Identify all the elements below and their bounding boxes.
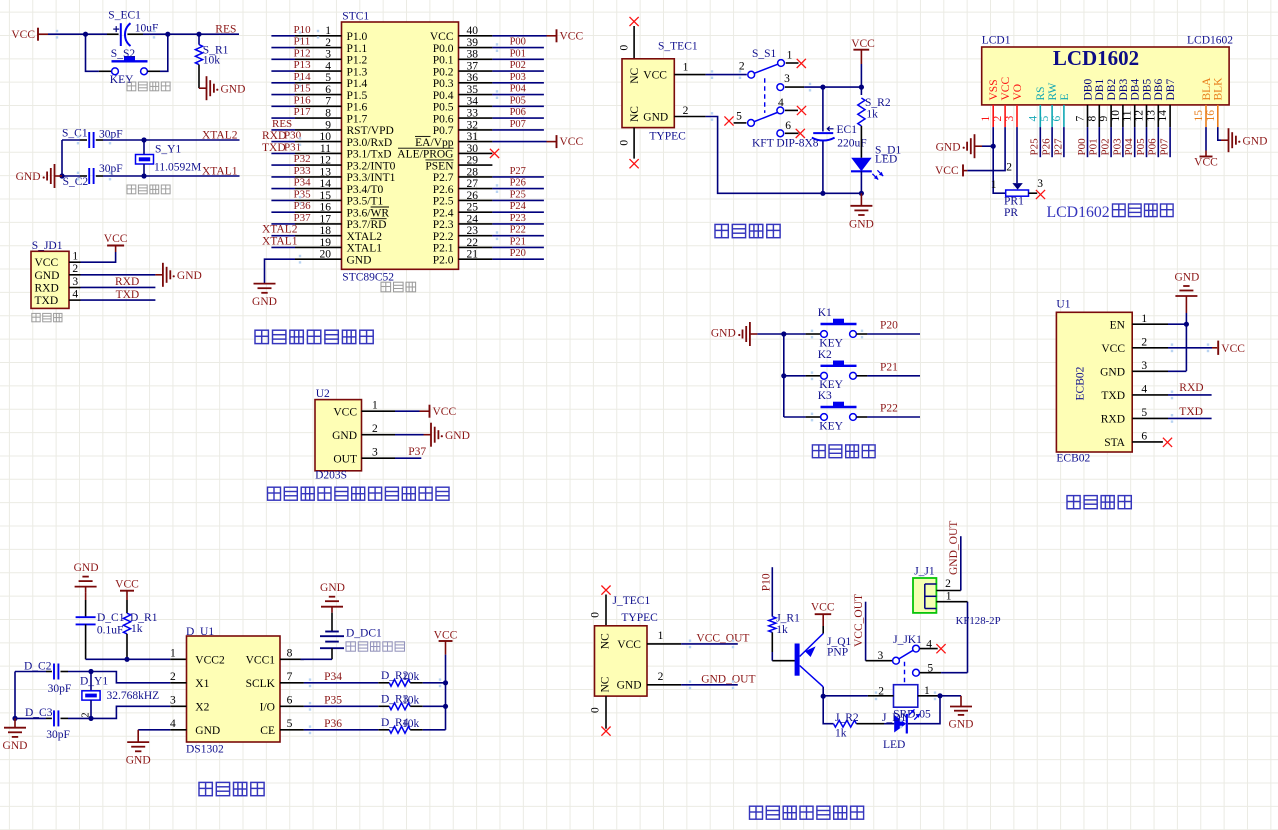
svg-text:P32: P32 (294, 153, 311, 165)
svg-text:14: 14 (1157, 110, 1169, 122)
svg-text:11: 11 (1122, 110, 1134, 121)
svg-text:VCC: VCC (851, 38, 875, 50)
svg-text:DS1302: DS1302 (186, 744, 224, 756)
svg-text:VCC: VCC (643, 70, 667, 82)
svg-text:S_EC1: S_EC1 (108, 10, 141, 22)
svg-text:VCC: VCC (35, 257, 59, 269)
svg-text:1k: 1k (835, 728, 847, 740)
svg-text:GND_OUT: GND_OUT (948, 521, 960, 575)
svg-text:EC1: EC1 (837, 124, 858, 136)
svg-text:15: 15 (1193, 110, 1205, 122)
svg-text:P06: P06 (1147, 138, 1159, 156)
svg-text:P1.5: P1.5 (347, 90, 368, 102)
svg-text:P37: P37 (408, 446, 426, 458)
svg-text:KEY: KEY (819, 337, 843, 349)
svg-text:I/O: I/O (260, 702, 275, 714)
svg-text:P01: P01 (510, 48, 526, 59)
svg-text:1: 1 (658, 630, 664, 642)
svg-text:P21: P21 (510, 236, 526, 247)
svg-text:K1: K1 (818, 307, 832, 319)
svg-text:BLA: BLA (1201, 77, 1213, 101)
svg-text:P0.6: P0.6 (433, 113, 454, 125)
svg-text:4: 4 (1141, 384, 1147, 396)
svg-text:NC: NC (629, 106, 641, 122)
svg-text:GND: GND (711, 328, 736, 340)
svg-text:1: 1 (787, 50, 793, 62)
svg-text:P10: P10 (760, 573, 772, 591)
svg-text:GND: GND (347, 254, 372, 266)
svg-text:DB7: DB7 (1165, 79, 1177, 101)
svg-text:0: 0 (590, 707, 602, 713)
svg-text:P34: P34 (294, 177, 312, 189)
svg-text:J_D1: J_D1 (882, 712, 907, 724)
svg-text:STC1: STC1 (342, 11, 369, 23)
svg-text:1: 1 (980, 116, 992, 122)
svg-text:10k: 10k (203, 55, 221, 67)
svg-text:2: 2 (658, 671, 664, 683)
svg-text:VCC: VCC (1101, 343, 1125, 355)
svg-text:NC: NC (629, 67, 641, 83)
svg-text:P1.6: P1.6 (347, 102, 368, 114)
svg-text:2: 2 (945, 578, 951, 590)
svg-text:16: 16 (1205, 110, 1217, 122)
svg-text:VCC1: VCC1 (246, 655, 276, 667)
svg-text:SCLK: SCLK (246, 678, 276, 690)
svg-text:U2: U2 (316, 388, 330, 400)
svg-text:VCC: VCC (11, 29, 35, 41)
svg-text:S_C2: S_C2 (63, 176, 89, 188)
svg-text:DB6: DB6 (1153, 79, 1165, 101)
svg-text:X1: X1 (195, 678, 209, 690)
svg-text:8: 8 (287, 648, 293, 660)
svg-text:D_C2: D_C2 (24, 660, 52, 672)
svg-text:6: 6 (1141, 431, 1147, 443)
svg-text:2: 2 (1141, 336, 1147, 348)
svg-text:XTAL1: XTAL1 (347, 243, 383, 255)
svg-text:P15: P15 (294, 83, 312, 95)
svg-text:RXD: RXD (262, 130, 286, 142)
svg-text:VCC: VCC (1221, 343, 1245, 355)
svg-text:D_C1: D_C1 (97, 612, 125, 624)
svg-text:P0.5: P0.5 (433, 102, 454, 114)
svg-text:10k: 10k (402, 718, 420, 730)
svg-text:6: 6 (785, 120, 791, 132)
svg-text:0.1uF: 0.1uF (97, 625, 124, 637)
svg-text:P0.4: P0.4 (433, 90, 454, 102)
svg-text:VCC: VCC (433, 406, 457, 418)
svg-text:2: 2 (372, 423, 378, 435)
svg-text:PSEN: PSEN (425, 160, 454, 172)
svg-text:PR1: PR1 (1004, 196, 1024, 208)
svg-text:2: 2 (1006, 161, 1012, 173)
svg-text:P33: P33 (294, 165, 312, 177)
svg-text:GND: GND (617, 680, 642, 692)
svg-text:D_Y1: D_Y1 (80, 676, 108, 688)
svg-text:P0.1: P0.1 (433, 55, 454, 67)
svg-text:VO: VO (1012, 84, 1024, 101)
svg-text:ECB02: ECB02 (1075, 366, 1087, 400)
svg-text:P1.1: P1.1 (347, 43, 368, 55)
svg-text:8: 8 (1086, 116, 1098, 122)
svg-text:EN: EN (1110, 319, 1126, 331)
svg-text:P00: P00 (510, 37, 526, 48)
svg-text:P10: P10 (294, 24, 312, 36)
svg-text:S_Y1: S_Y1 (155, 143, 181, 155)
svg-text:U1: U1 (1056, 298, 1070, 310)
svg-text:220uF: 220uF (837, 137, 866, 149)
svg-text:P2.3: P2.3 (433, 219, 454, 231)
svg-text:DB1: DB1 (1094, 79, 1106, 101)
svg-text:2: 2 (170, 671, 176, 683)
svg-text:XTAL2: XTAL2 (262, 224, 298, 236)
svg-text:3: 3 (1141, 360, 1147, 372)
svg-text:3: 3 (784, 73, 790, 85)
svg-text:5: 5 (1141, 407, 1147, 419)
svg-text:P1.7: P1.7 (347, 113, 368, 125)
svg-text:P3.2/INT0: P3.2/INT0 (347, 160, 396, 172)
svg-text:1: 1 (1141, 313, 1147, 325)
svg-text:1: 1 (72, 251, 78, 263)
svg-text:KFT DIP-8X8: KFT DIP-8X8 (752, 137, 819, 149)
svg-text:P26: P26 (1041, 138, 1053, 156)
svg-text:P2.2: P2.2 (433, 231, 454, 243)
svg-text:P1.0: P1.0 (347, 31, 368, 43)
svg-text:RXD: RXD (35, 283, 59, 295)
svg-text:XTAL2: XTAL2 (347, 231, 383, 243)
svg-text:P2.4: P2.4 (433, 207, 454, 219)
svg-text:10: 10 (1110, 110, 1122, 122)
svg-text:1: 1 (170, 648, 176, 660)
svg-text:10uF: 10uF (135, 22, 159, 34)
svg-text:P0.7: P0.7 (433, 125, 454, 137)
svg-text:TYPEC: TYPEC (621, 612, 658, 624)
svg-text:GND: GND (849, 218, 874, 230)
svg-text:P3.4/T0: P3.4/T0 (347, 184, 384, 196)
svg-text:RXD: RXD (115, 276, 139, 288)
svg-text:D_C3: D_C3 (25, 707, 53, 719)
svg-text:3: 3 (1037, 178, 1043, 190)
svg-text:P17: P17 (294, 106, 312, 118)
svg-text:VCC: VCC (333, 406, 357, 418)
svg-text:3: 3 (878, 650, 884, 662)
svg-text:GND: GND (177, 270, 202, 282)
svg-text:1: 1 (991, 179, 997, 191)
svg-text:RXD: RXD (1101, 414, 1125, 426)
svg-text:5: 5 (1039, 116, 1051, 122)
svg-text:XTAL1: XTAL1 (202, 165, 238, 177)
svg-text:GND: GND (320, 582, 345, 594)
svg-text:P25: P25 (510, 189, 526, 200)
svg-text:VCC: VCC (1194, 157, 1218, 169)
svg-text:VCC: VCC (811, 601, 835, 613)
svg-text:30pF: 30pF (99, 129, 123, 141)
svg-text:VCC: VCC (617, 639, 641, 651)
svg-text:P35: P35 (294, 188, 312, 200)
svg-text:GND_OUT: GND_OUT (701, 674, 755, 686)
svg-text:GND: GND (332, 430, 357, 442)
svg-text:ECB02: ECB02 (1056, 453, 1090, 465)
svg-text:P3.6/WR: P3.6/WR (347, 207, 390, 219)
svg-text:TXD: TXD (1179, 406, 1203, 418)
svg-text:9: 9 (1098, 116, 1110, 122)
svg-text:TYPEC: TYPEC (649, 130, 686, 142)
svg-text:1k: 1k (776, 624, 788, 636)
svg-text:32.768kHZ: 32.768kHZ (107, 690, 160, 702)
svg-text:P1.2: P1.2 (347, 55, 368, 67)
svg-text:P07: P07 (1159, 138, 1171, 156)
svg-text:S_S1: S_S1 (752, 48, 777, 60)
svg-text:LCD1602: LCD1602 (1187, 35, 1233, 47)
svg-text:PNP: PNP (827, 647, 848, 659)
svg-text:NC: NC (599, 676, 611, 692)
svg-text:KF128-2P: KF128-2P (956, 615, 1001, 627)
svg-text:P3.0/RxD: P3.0/RxD (347, 137, 393, 149)
svg-text:S_S2: S_S2 (111, 48, 136, 60)
svg-text:6: 6 (287, 695, 293, 707)
svg-text:VCC2: VCC2 (195, 655, 225, 667)
svg-text:XTAL1: XTAL1 (262, 235, 298, 247)
svg-text:DB2: DB2 (1106, 79, 1118, 101)
svg-text:P22: P22 (510, 225, 526, 236)
svg-text:TXD: TXD (1101, 390, 1125, 402)
svg-text:GND: GND (1243, 135, 1268, 147)
svg-text:P06: P06 (510, 107, 526, 118)
svg-text:30pF: 30pF (46, 729, 70, 741)
svg-text:PR: PR (1004, 207, 1018, 219)
svg-text:DB3: DB3 (1118, 79, 1130, 101)
svg-text:DB0: DB0 (1082, 79, 1094, 101)
svg-text:GND: GND (126, 755, 151, 767)
svg-text:P13: P13 (294, 59, 312, 71)
svg-text:3: 3 (170, 695, 176, 707)
svg-text:K3: K3 (818, 390, 832, 402)
svg-text:GND: GND (35, 270, 60, 282)
svg-text:P04: P04 (510, 84, 527, 95)
svg-text:P0.0: P0.0 (433, 43, 454, 55)
svg-text:P2.0: P2.0 (433, 254, 454, 266)
svg-text:P0.3: P0.3 (433, 78, 454, 90)
svg-text:1k: 1k (866, 109, 878, 121)
svg-text:10k: 10k (402, 694, 420, 706)
svg-text:P04: P04 (1123, 138, 1135, 156)
svg-text:DB4: DB4 (1130, 79, 1142, 101)
svg-text:S_TEC1: S_TEC1 (658, 41, 698, 53)
svg-text:EA/Vpp: EA/Vpp (415, 137, 454, 149)
svg-text:LED: LED (883, 739, 905, 751)
svg-text:LCD1602: LCD1602 (1047, 204, 1110, 221)
svg-text:4: 4 (72, 289, 78, 301)
svg-text:P05: P05 (510, 95, 526, 106)
svg-text:TXD: TXD (262, 142, 286, 154)
svg-text:CE: CE (260, 725, 275, 737)
svg-text:J_J1: J_J1 (914, 565, 935, 577)
svg-text:P11: P11 (294, 36, 311, 48)
svg-text:P37: P37 (294, 212, 312, 224)
svg-text:P36: P36 (294, 200, 312, 212)
svg-text:P21: P21 (880, 362, 898, 374)
svg-text:1: 1 (683, 62, 689, 74)
svg-text:3: 3 (1004, 116, 1016, 122)
svg-text:VCC: VCC (560, 30, 584, 42)
svg-text:RW: RW (1047, 82, 1059, 100)
svg-text:RS: RS (1035, 86, 1047, 100)
svg-text:GND: GND (74, 562, 99, 574)
svg-text:P0.2: P0.2 (433, 66, 454, 78)
svg-text:2: 2 (683, 105, 689, 117)
svg-text:P26: P26 (510, 178, 526, 189)
svg-text:P07: P07 (510, 119, 526, 130)
svg-text:J_R2: J_R2 (835, 712, 859, 724)
svg-text:NC: NC (599, 633, 611, 649)
svg-text:KEY: KEY (819, 420, 843, 432)
svg-text:S_JD1: S_JD1 (32, 240, 63, 252)
svg-text:P03: P03 (510, 72, 526, 83)
svg-text:P25: P25 (1029, 138, 1041, 156)
svg-text:OUT: OUT (333, 453, 357, 465)
svg-text:4: 4 (778, 97, 784, 109)
svg-text:BLK: BLK (1213, 77, 1225, 101)
svg-text:10k: 10k (402, 671, 420, 683)
svg-text:P1.4: P1.4 (347, 78, 368, 90)
svg-text:1k: 1k (131, 623, 143, 635)
svg-text:2: 2 (72, 263, 78, 275)
svg-text:GND: GND (949, 719, 974, 731)
svg-text:1: 1 (372, 400, 378, 412)
svg-text:12: 12 (1134, 110, 1146, 122)
svg-text:TXD: TXD (35, 295, 59, 307)
svg-text:LED: LED (875, 153, 897, 165)
svg-text:VCC: VCC (104, 233, 128, 245)
svg-text:GND: GND (445, 430, 470, 442)
svg-text:STA: STA (1104, 437, 1125, 449)
svg-text:S_R2: S_R2 (865, 97, 891, 109)
svg-text:VCC: VCC (430, 31, 454, 43)
svg-text:13: 13 (1145, 110, 1157, 122)
svg-text:RES: RES (215, 23, 236, 35)
svg-text:VCC_OUT: VCC_OUT (696, 633, 749, 645)
svg-text:RXD: RXD (1179, 382, 1203, 394)
svg-text:1: 1 (946, 590, 952, 602)
svg-text:GND: GND (16, 171, 41, 183)
svg-text:VCC: VCC (935, 165, 959, 177)
svg-text:4: 4 (170, 718, 176, 730)
svg-text:5: 5 (736, 110, 742, 122)
svg-text:0: 0 (619, 140, 631, 146)
svg-text:P24: P24 (510, 201, 527, 212)
svg-text:P3.7/RD: P3.7/RD (347, 219, 387, 231)
svg-text:P2.7: P2.7 (433, 172, 454, 184)
svg-text:P2.5: P2.5 (433, 196, 454, 208)
svg-text:P22: P22 (880, 403, 898, 415)
svg-text:DB5: DB5 (1141, 79, 1153, 101)
svg-text:VCC: VCC (1000, 77, 1012, 101)
svg-text:P05: P05 (1135, 138, 1147, 156)
svg-text:VCC: VCC (434, 629, 458, 641)
svg-text:K2: K2 (818, 349, 832, 361)
svg-text:E: E (1059, 93, 1071, 100)
svg-text:VCC: VCC (115, 579, 139, 591)
svg-text:P35: P35 (324, 694, 342, 706)
svg-text:P20: P20 (510, 248, 526, 259)
svg-text:GND: GND (3, 740, 28, 752)
svg-text:0: 0 (590, 612, 602, 618)
svg-text:GND: GND (1174, 272, 1199, 284)
svg-text:TXD: TXD (116, 289, 140, 301)
svg-text:P3.1/TxD: P3.1/TxD (347, 149, 392, 161)
svg-text:P03: P03 (1111, 138, 1123, 156)
svg-text:VSS: VSS (988, 79, 1000, 100)
svg-text:P1.3: P1.3 (347, 66, 368, 78)
svg-text:GND: GND (1100, 367, 1125, 379)
svg-text:0: 0 (619, 45, 631, 51)
svg-text:GND: GND (221, 83, 246, 95)
svg-text:D_DC1: D_DC1 (346, 627, 382, 639)
svg-text:2: 2 (80, 713, 91, 718)
svg-text:P14: P14 (294, 71, 312, 83)
svg-text:P12: P12 (294, 47, 311, 59)
svg-text:ALE/PROG: ALE/PROG (397, 149, 453, 161)
svg-text:P00: P00 (1076, 138, 1088, 156)
svg-text:3: 3 (372, 447, 378, 459)
svg-text:7: 7 (287, 671, 293, 683)
svg-text:P20: P20 (880, 320, 898, 332)
svg-text:30pF: 30pF (48, 683, 72, 695)
svg-text:GND: GND (643, 112, 668, 124)
svg-text:P23: P23 (510, 213, 526, 224)
svg-text:KEY: KEY (110, 74, 134, 86)
svg-text:VCC: VCC (560, 136, 584, 148)
svg-text:GND: GND (252, 296, 277, 308)
svg-text:P2.1: P2.1 (433, 243, 454, 255)
svg-text:GND: GND (195, 725, 220, 737)
svg-text:2: 2 (992, 116, 1004, 122)
svg-text:P34: P34 (324, 671, 342, 683)
svg-text:P27: P27 (1052, 138, 1064, 156)
svg-text:P3.3/INT1: P3.3/INT1 (347, 172, 396, 184)
svg-text:RES: RES (272, 118, 292, 130)
svg-text:J_JK1: J_JK1 (893, 634, 922, 646)
svg-text:LCD1: LCD1 (982, 35, 1011, 47)
svg-text:11.0592M: 11.0592M (154, 162, 201, 174)
svg-text:P02: P02 (1100, 138, 1112, 155)
svg-text:J_TEC1: J_TEC1 (613, 595, 651, 607)
svg-text:3: 3 (72, 276, 78, 288)
svg-text:D203S: D203S (315, 469, 347, 481)
svg-text:XTAL2: XTAL2 (202, 129, 238, 141)
svg-text:LCD1602: LCD1602 (1053, 46, 1139, 70)
svg-text:J_R1: J_R1 (776, 613, 800, 625)
svg-text:P01: P01 (1088, 138, 1100, 155)
svg-text:P3.5/T1: P3.5/T1 (347, 196, 384, 208)
svg-text:5: 5 (287, 718, 293, 730)
svg-text:GND: GND (936, 141, 961, 153)
svg-text:4: 4 (1027, 116, 1039, 122)
svg-text:X2: X2 (195, 702, 209, 714)
svg-text:P36: P36 (324, 718, 342, 730)
svg-text:RST/VPD: RST/VPD (347, 125, 394, 137)
svg-text:P27: P27 (510, 166, 526, 177)
svg-text:P31: P31 (284, 141, 301, 153)
svg-text:6: 6 (1051, 116, 1063, 122)
svg-text:P2.6: P2.6 (433, 184, 454, 196)
svg-text:VCC_OUT: VCC_OUT (853, 594, 865, 647)
svg-text:P16: P16 (294, 94, 312, 106)
svg-text:P30: P30 (284, 130, 302, 142)
svg-text:7: 7 (1075, 116, 1087, 122)
svg-text:S_C1: S_C1 (62, 128, 88, 140)
svg-text:P02: P02 (510, 60, 526, 71)
